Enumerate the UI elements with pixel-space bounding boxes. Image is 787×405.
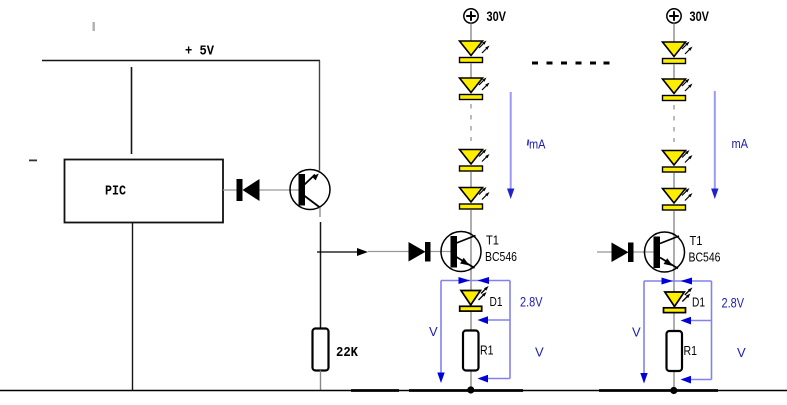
svg-text:V: V	[429, 324, 438, 339]
wire into diode base string1	[368, 251, 410, 253]
stray tick before mA string1	[527, 139, 529, 145]
svg-text:T1: T1	[486, 234, 499, 248]
wire resistor to ground	[320, 371, 322, 391]
wire +5V rail horizontal	[42, 60, 320, 62]
wire Q1 bottom to resistor	[319, 208, 321, 218]
resistor R1 string1	[463, 331, 479, 371]
LED 1 string1	[460, 41, 490, 63]
PIC box U1	[65, 160, 224, 223]
junction dot string1	[467, 386, 474, 393]
measurement bracket string2 (blue)	[644, 281, 712, 380]
wire LED4 down through T1 to ground	[673, 211, 675, 391]
LED D1 string1	[460, 286, 489, 311]
current arrow mA string1	[507, 92, 514, 199]
svg-text:D1: D1	[692, 296, 705, 310]
junction dot string2	[670, 387, 677, 394]
wire into diode base string2	[597, 251, 613, 253]
wire LED3-LED4	[470, 172, 472, 189]
wire supply to LED1	[673, 24, 675, 43]
wire diode to T1 base	[431, 251, 452, 253]
svg-text:mA: mA	[529, 137, 546, 152]
svg-text:mA: mA	[732, 136, 749, 151]
wire diode to T1 base	[634, 251, 655, 253]
wire LED1-LED2	[470, 63, 472, 79]
resistor 22K body	[313, 329, 329, 371]
resistor R1 string2	[667, 331, 683, 371]
svg-text:2.8V: 2.8V	[520, 294, 543, 310]
wire diode to base of Q1	[260, 189, 300, 191]
stray gray tick	[93, 22, 95, 31]
diode D_base2 (pointing right)	[612, 243, 634, 263]
wire rail to Q1 top	[319, 61, 321, 171]
LED 2 string1	[460, 78, 490, 100]
ground rail full width	[0, 390, 787, 392]
bracket arrowheads string1	[437, 277, 489, 383]
LED 4 string1	[460, 187, 490, 209]
wire rail to PIC box vertical	[131, 67, 133, 154]
LED 2 string2	[663, 79, 693, 101]
stray dash left of PIC	[29, 160, 37, 162]
diode D_base1 (pointing right)	[409, 242, 431, 262]
svg-text:V: V	[737, 345, 746, 360]
wire dashed continuation string2	[673, 105, 675, 142]
dashed line (repetition dots)	[532, 62, 610, 65]
wire PIC output to diode	[223, 189, 239, 191]
svg-text:2.8V: 2.8V	[722, 295, 745, 311]
svg-text:+ 5V: + 5V	[185, 44, 215, 60]
svg-text:BC546: BC546	[689, 251, 721, 265]
wire supply to LED1	[470, 24, 472, 42]
svg-text:V: V	[535, 345, 544, 360]
transistor T1 string2	[645, 232, 685, 272]
svg-text:BC546: BC546	[485, 250, 517, 264]
LED 3 string1	[460, 149, 490, 171]
ground rail thick segment 1	[351, 389, 399, 392]
svg-text:R1: R1	[684, 344, 698, 358]
svg-text:22K: 22K	[336, 345, 359, 361]
measurement bracket string1 (blue)	[441, 281, 510, 379]
svg-text:T1: T1	[690, 234, 703, 248]
svg-text:30V: 30V	[690, 8, 710, 24]
current arrow mA string2	[711, 91, 718, 199]
ground rail thick segment 2	[409, 389, 523, 392]
transistor Q1 (emitter arrow up-right)	[290, 170, 330, 210]
svg-text:V: V	[632, 325, 641, 340]
wire LED4 down through T1 to ground	[470, 210, 472, 391]
wire dashed continuation string1	[470, 104, 472, 141]
bracket arrowheads string2	[640, 278, 692, 384]
supply +30V string2	[667, 9, 681, 23]
wire PIC to ground vertical	[132, 223, 134, 391]
wire LED1-LED2	[673, 64, 675, 80]
transistor T1 string1	[441, 232, 481, 272]
LED D1 string2	[664, 288, 693, 313]
LED 4 string2	[663, 188, 693, 210]
arrow Q1 output to first string	[317, 248, 368, 256]
svg-text:D1: D1	[490, 295, 503, 309]
supply +30V string1	[464, 9, 478, 23]
diode D_pic (cathode bar left, pointing left)	[237, 179, 260, 201]
LED 3 string2	[663, 150, 693, 172]
svg-text:30V: 30V	[487, 8, 507, 24]
wire LED3-LED4	[673, 173, 675, 190]
LED 1 string2	[663, 42, 693, 64]
svg-text:R1: R1	[480, 344, 494, 358]
ground rail thick segment 3	[599, 389, 718, 392]
svg-text:PIC: PIC	[105, 184, 126, 200]
